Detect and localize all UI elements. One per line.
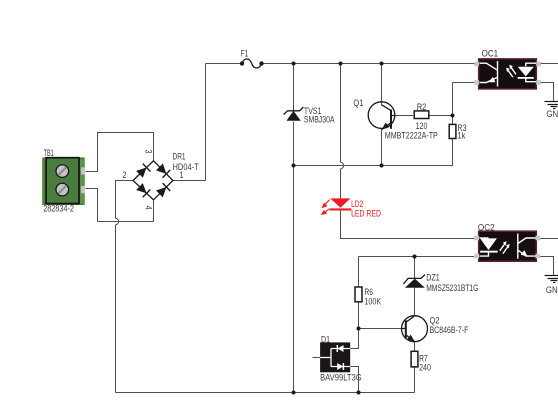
ground GND1 — [545, 102, 558, 109]
svg-text:282834-2: 282834-2 — [43, 203, 74, 214]
wire hop over horizontal (vertical bulge) — [116, 218, 119, 224]
wire OC2 lower-left net — [359, 257, 475, 329]
svg-text:D1: D1 — [321, 335, 330, 346]
wire D1 stub — [313, 357, 321, 359]
svg-text:F1: F1 — [241, 48, 249, 59]
wire Q1 base to R2 — [395, 115, 452, 117]
svg-text:BAV99LT3G: BAV99LT3G — [320, 372, 362, 383]
wire Q1 emitter — [381, 129, 383, 166]
resistor R3 — [449, 123, 466, 142]
ground GND2 — [545, 276, 558, 283]
wire TVS column — [293, 64, 295, 393]
wire D1 top exit — [350, 329, 358, 349]
wire Q2 emitter to R7 — [414, 342, 416, 393]
wire bridge pin1 to rail — [173, 64, 206, 181]
wire TB1 pin1 to bridge pin3 — [86, 133, 154, 172]
optocoupler OC2 — [474, 223, 540, 262]
svg-text:3: 3 — [143, 150, 154, 154]
fuse F1 — [240, 48, 264, 68]
wire DZ1 column — [414, 257, 416, 316]
bridge rectifier DR1 — [123, 150, 199, 210]
svg-text:GND: GND — [546, 109, 558, 120]
diode DR1 top-right — [156, 163, 171, 178]
wire LD2 column to OC2 — [341, 64, 475, 239]
wire Q1 collector — [381, 64, 383, 106]
wire top rail left segment — [206, 63, 243, 65]
terminal block TB1 — [42, 148, 85, 214]
transistor Q2 — [402, 315, 469, 341]
svg-text:DR1: DR1 — [173, 151, 186, 162]
svg-text:SMBJ30A: SMBJ30A — [304, 115, 335, 126]
svg-text:1: 1 — [180, 170, 184, 181]
svg-text:TB1: TB1 — [44, 148, 54, 159]
diode DR1 bottom-left — [136, 183, 151, 198]
svg-text:LED RED: LED RED — [351, 209, 381, 220]
svg-text:2: 2 — [123, 170, 127, 181]
wire bridge pin2 to bottom rail — [116, 181, 134, 393]
diode DR1 top-left — [136, 164, 151, 179]
zener diode DZ1 — [403, 273, 478, 295]
svg-text:MMSZ5231BT1G: MMSZ5231BT1G — [426, 283, 478, 294]
svg-text:Q1: Q1 — [353, 98, 363, 109]
dual diode D1 — [320, 335, 362, 384]
bottom diode (points right) — [337, 363, 343, 370]
svg-text:100K: 100K — [364, 297, 381, 308]
wire top rail right segment — [262, 63, 478, 65]
svg-text:BC846B-7-F: BC846B-7-F — [430, 325, 469, 336]
transistor Q1 — [353, 98, 437, 142]
svg-text:HD04-T: HD04-T — [173, 162, 199, 173]
wire OC2 to GND — [538, 257, 553, 275]
resistor R2 — [414, 102, 429, 132]
wire bottom rail — [116, 392, 415, 394]
svg-text:MMBT2222A-TP: MMBT2222A-TP — [385, 131, 438, 142]
resistor R6 — [355, 287, 382, 308]
wire Q2 base — [359, 328, 402, 330]
resistor R7 — [411, 351, 431, 373]
optocoupler OC1 — [474, 48, 541, 89]
svg-text:OC1: OC1 — [482, 48, 499, 59]
LED LD2 — [322, 198, 381, 219]
TVS diode TVS1 — [284, 106, 335, 126]
junction dots — [292, 62, 455, 395]
svg-text:R2: R2 — [417, 102, 427, 113]
svg-text:240: 240 — [419, 362, 431, 373]
wire OC2 right to edge — [538, 238, 558, 240]
svg-text:4: 4 — [143, 206, 154, 210]
wire OC1 right to edge — [539, 63, 558, 65]
svg-text:DZ1: DZ1 — [426, 273, 440, 284]
wire hop of LD2 column over horizontal — [341, 162, 344, 168]
wire mid horizontal — [294, 139, 453, 166]
diode DR1 bottom-right — [156, 183, 171, 198]
svg-text:120: 120 — [416, 121, 428, 132]
svg-text:GND: GND — [546, 285, 558, 296]
wire D1 bottom exit — [350, 367, 358, 393]
wire R3 top to OC1 — [453, 83, 475, 125]
top diode (points left) — [338, 345, 344, 352]
wire TB1 pin2 to bridge pin4 — [86, 189, 154, 222]
svg-text:1k: 1k — [458, 131, 466, 142]
svg-text:OC2: OC2 — [478, 223, 495, 234]
wire OC1 to GND — [539, 83, 554, 101]
